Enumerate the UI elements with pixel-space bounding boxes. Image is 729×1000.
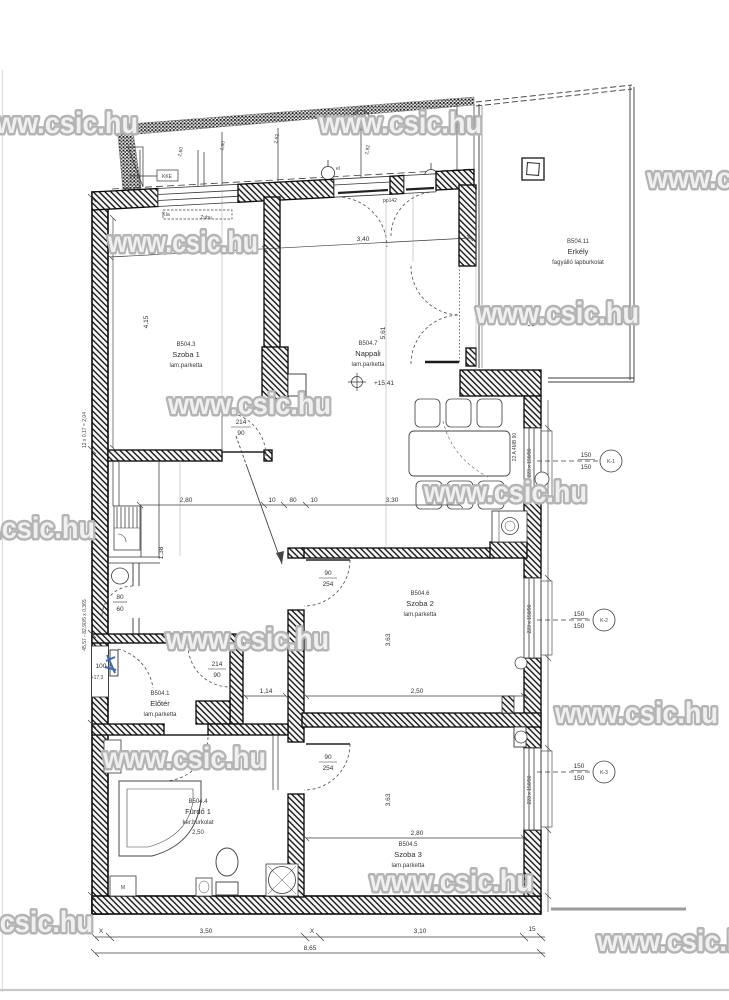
svg-text:2,80: 2,80 <box>411 830 424 837</box>
label Szoba2 <box>403 591 437 618</box>
top wall segment C <box>390 176 404 195</box>
chair 6 <box>478 481 504 509</box>
chair 3 <box>477 399 502 427</box>
inner dim line Szoba1 left <box>110 215 116 451</box>
svg-text:60: 60 <box>116 606 124 613</box>
window right Nappali <box>524 428 552 500</box>
white niche box below S2|S3 wall <box>514 727 526 747</box>
svg-text:90: 90 <box>324 754 332 761</box>
column square on balcony <box>522 158 544 180</box>
wall WC bottom H1 <box>92 634 188 643</box>
svg-text:pp142: pp142 <box>383 198 397 204</box>
extension thin verticals <box>180 190 476 556</box>
svg-text:el: el <box>336 166 340 172</box>
svg-text:+17,3: +17,3 <box>91 675 104 681</box>
top door opening 2 <box>404 174 436 194</box>
svg-text:lam.parketta: lam.parketta <box>143 712 177 718</box>
svg-text:22 A 4MB 90: 22 A 4MB 90 <box>512 433 518 462</box>
top wall segment B <box>238 179 334 202</box>
door Fürdő arc <box>164 735 208 781</box>
svg-text:90: 90 <box>237 430 245 437</box>
label Szoba3 <box>391 842 425 869</box>
wall right seg2 <box>524 500 541 578</box>
toilet Fürdő <box>216 848 238 895</box>
chair 4 <box>416 481 442 509</box>
washing machine Fürdő <box>104 740 121 773</box>
svg-text:Szoba 3: Szoba 3 <box>394 850 422 859</box>
svg-text:www.csic.hu: www.csic.hu <box>0 107 138 140</box>
chair 1 <box>415 399 440 427</box>
wall right seg4 <box>524 830 541 896</box>
svg-text:223 x 150/90: 223 x 150/90 <box>527 775 533 804</box>
entrance door gap + blue mark <box>91 646 153 697</box>
svg-text:150: 150 <box>574 611 585 618</box>
svg-text:B504.4: B504.4 <box>188 799 208 805</box>
vent circle on top wall 2 <box>425 163 438 183</box>
label Elotér <box>143 691 177 718</box>
svg-text:B504.3: B504.3 <box>176 342 196 348</box>
svg-text:Erkély: Erkély <box>568 247 589 256</box>
triangle brace top-left <box>128 147 143 187</box>
wall between Nappali and balcony (vertical) <box>459 185 476 266</box>
svg-text:www.csic.hu: www.csic.hu <box>318 107 482 140</box>
scan edge line <box>2 70 4 992</box>
svg-text:Fürdő 1: Fürdő 1 <box>185 807 211 816</box>
svg-text:www.csic.hu: www.csic.hu <box>0 906 93 939</box>
svg-text:www.csic.hu: www.csic.hu <box>165 623 329 656</box>
H1 stub right <box>228 634 236 643</box>
top wall corner piece D <box>436 170 474 191</box>
svg-text:www.csic.hu: www.csic.hu <box>167 388 331 421</box>
floor drain square <box>266 864 298 896</box>
mid wall Nappali|Szoba2 <box>302 548 492 558</box>
svg-text:150: 150 <box>581 452 592 459</box>
svg-text:fagyálló lapburkolat: fagyálló lapburkolat <box>552 260 604 266</box>
wall left <box>92 192 108 914</box>
window right Szoba3 <box>524 748 552 830</box>
shaft top thin wall <box>107 506 160 563</box>
svg-text:www.csic.hu: www.csic.hu <box>107 226 258 259</box>
door Elotér arc <box>188 643 230 687</box>
svg-text:100: 100 <box>96 663 107 670</box>
svg-text:B504.7: B504.7 <box>358 341 378 347</box>
section arrow diagonal <box>236 436 284 564</box>
svg-text:2,60: 2,60 <box>177 146 185 157</box>
wall Szoba2|Szoba3 <box>302 713 541 727</box>
svg-text:10: 10 <box>268 497 276 504</box>
post lines top-left <box>198 150 204 190</box>
small white box next to duct <box>288 374 306 396</box>
label Erkély <box>552 239 604 266</box>
bottom page separator <box>0 989 729 991</box>
svg-text:4,15: 4,15 <box>143 315 150 328</box>
svg-text:Nappali: Nappali <box>355 349 381 358</box>
svg-text:2,50: 2,50 <box>411 688 424 695</box>
window right Szoba2 <box>524 578 552 658</box>
svg-text:12 x 0,17 = 2,04: 12 x 0,17 = 2,04 <box>82 412 88 448</box>
door Szoba1 arc <box>222 412 266 456</box>
svg-text:15: 15 <box>528 926 536 933</box>
mid wall under kitchen <box>490 542 527 558</box>
svg-text:90: 90 <box>324 570 332 577</box>
wall Elotér bottom H2 left <box>92 724 164 735</box>
dashed line above top wall <box>112 169 474 189</box>
door label 214/90 Szoba1 <box>231 419 251 437</box>
extension line door top <box>412 192 414 262</box>
niche lines below Szoba1 wall <box>113 461 159 557</box>
svg-text:Szoba 2: Szoba 2 <box>406 599 434 608</box>
WC sink <box>112 568 129 584</box>
svg-text:3,10: 3,10 <box>414 928 427 935</box>
bathtub corner <box>119 781 201 856</box>
svg-text:3,30: 3,30 <box>386 497 399 504</box>
svg-text:lam.parketta: lam.parketta <box>403 612 437 618</box>
svg-text:K-1: K-1 <box>607 459 615 465</box>
hatched chunk Elotér bottom right <box>196 701 230 724</box>
svg-text:90: 90 <box>213 672 221 679</box>
kitchen counter <box>492 511 527 542</box>
svg-text:KKE: KKE <box>162 174 173 180</box>
Szoba1 bottom wall left part <box>108 450 222 461</box>
window leader Szoba2 <box>537 609 615 631</box>
WC door arc <box>102 586 133 617</box>
svg-text:254: 254 <box>323 765 334 772</box>
balcony door post <box>466 348 476 366</box>
wall corridor|rooms V2 seg1 <box>288 548 304 558</box>
level mark Nappali <box>348 373 366 391</box>
svg-text:www.csic.hu: www.csic.hu <box>646 162 729 195</box>
wall right seg3 <box>524 658 541 748</box>
svg-text:+15,41: +15,41 <box>374 380 394 387</box>
dark sill marks top wall <box>338 190 388 193</box>
svg-text:www.csic.hu: www.csic.hu <box>475 297 639 330</box>
svg-text:10: 10 <box>310 497 318 504</box>
svg-text:www.csic.hu: www.csic.hu <box>0 512 95 545</box>
svg-text:254: 254 <box>323 581 334 588</box>
svg-text:www.csic.hu: www.csic.hu <box>369 865 533 898</box>
bottom dim line 2 <box>91 949 545 957</box>
door label 214/90 Elotér <box>208 661 226 679</box>
Szoba2 dim line <box>303 693 527 699</box>
svg-text:80: 80 <box>289 497 297 504</box>
svg-text:X: X <box>310 928 315 935</box>
level mark Erkély <box>523 310 539 326</box>
shaft box with stripes <box>114 506 140 550</box>
svg-text:lam.parketta: lam.parketta <box>169 363 203 369</box>
label Fürdő <box>182 799 213 836</box>
door arcs at top wall into Nappali <box>337 192 435 247</box>
svg-text:2,62: 2,62 <box>273 133 281 144</box>
svg-text:223 x 150/90: 223 x 150/90 <box>527 448 533 477</box>
balcony double door <box>411 266 460 364</box>
svg-text:8,65: 8,65 <box>304 945 317 952</box>
svg-text:K-2: K-2 <box>600 618 608 624</box>
Szoba3 dim line <box>303 835 527 841</box>
svg-text:150: 150 <box>581 464 592 471</box>
door Szoba3 arc <box>304 744 350 790</box>
svg-text:Előtér: Előtér <box>150 699 170 708</box>
duct block at wall end <box>262 347 288 399</box>
pipe circle Szoba2 sill <box>515 657 527 669</box>
svg-text:B504.5: B504.5 <box>398 842 418 848</box>
bottom dim line 1 <box>91 933 545 941</box>
svg-text:lam.parketta: lam.parketta <box>351 362 385 368</box>
gray line right of bottom wall <box>551 908 686 911</box>
left wall outer ticks <box>88 194 96 900</box>
door label 90/254 Szoba3 <box>319 754 337 772</box>
svg-text:3,63: 3,63 <box>385 793 392 806</box>
top room dim line <box>107 235 473 260</box>
connector lines from band to wall <box>140 103 474 190</box>
wall H2 right <box>208 724 288 735</box>
svg-text:B504.1: B504.1 <box>150 691 170 697</box>
KKE label box <box>130 170 178 181</box>
svg-text:ker.burkolat: ker.burkolat <box>182 820 213 826</box>
svg-text:www.csic.hu: www.csic.hu <box>102 742 266 775</box>
wall V2 seg2 <box>288 610 304 742</box>
svg-text:80: 80 <box>116 594 124 601</box>
door Szoba2 arc <box>304 560 350 606</box>
wall band between balcony and kitchen <box>460 370 541 396</box>
radiator under window W1 <box>163 210 232 219</box>
door label 90/254 Szoba2 <box>319 570 337 588</box>
corridor width dim <box>242 693 289 699</box>
right vertical dim line <box>545 400 551 912</box>
pipe circle Szoba3 sill <box>515 731 527 743</box>
window leader Szoba3 <box>537 761 615 783</box>
shower screen line <box>273 735 278 790</box>
svg-text:2,92: 2,92 <box>364 144 372 155</box>
svg-text:www.csic.hu: www.csic.hu <box>423 476 587 509</box>
svg-text:150: 150 <box>574 775 585 782</box>
wall right top corner piece <box>524 396 541 428</box>
corridor dim line <box>137 502 463 508</box>
dining table <box>409 431 510 476</box>
cabinet M bottom left <box>110 876 136 896</box>
balcony door threshold dark <box>425 361 459 363</box>
svg-text:Zubu: Zubu <box>200 215 212 221</box>
vent circle on top wall 1 <box>322 160 335 180</box>
svg-text:214: 214 <box>212 661 223 668</box>
svg-text:B504.11: B504.11 <box>567 239 590 245</box>
window leader Nappali <box>537 450 622 472</box>
svg-text:3,50: 3,50 <box>200 928 213 935</box>
svg-text:45,57 - 82,90/5 x 0,365: 45,57 - 82,90/5 x 0,365 <box>82 599 88 651</box>
svg-text:2,50: 2,50 <box>192 830 204 836</box>
interior wall Szoba1|Nappali <box>264 197 280 384</box>
chair 5 <box>447 481 473 509</box>
svg-text:M: M <box>121 885 125 891</box>
svg-text:1,38: 1,38 <box>158 546 165 559</box>
svg-text:3,63: 3,63 <box>385 633 392 646</box>
balcony parapet dashed top <box>476 85 634 382</box>
Szoba1 bottom wall right stub <box>264 450 272 461</box>
svg-text:150: 150 <box>574 763 585 770</box>
wall bottom <box>92 896 541 914</box>
svg-text:223 x 150/90: 223 x 150/90 <box>527 604 533 633</box>
top door opening sill <box>334 176 390 197</box>
svg-text:www.csic.hu: www.csic.hu <box>554 697 718 730</box>
svg-text:1,14: 1,14 <box>260 688 273 695</box>
swing arc across table <box>443 421 488 477</box>
wall Elotér right V3 <box>230 643 243 724</box>
svg-text:2,80: 2,80 <box>180 497 193 504</box>
svg-text:K-3: K-3 <box>600 770 608 776</box>
wall V2 seg3 <box>288 794 304 897</box>
circle mark on band <box>353 111 370 128</box>
small sink Fürdő <box>196 878 212 896</box>
demolition stipple band top <box>116 97 474 191</box>
WC label <box>113 594 127 613</box>
svg-text:Szoba 1: Szoba 1 <box>172 350 200 359</box>
pipe circle outside right wall <box>535 472 549 486</box>
small notch above S2|S3 wall <box>502 696 514 713</box>
window W1 top (Szoba 1) <box>158 184 238 206</box>
svg-text:150: 150 <box>574 623 585 630</box>
WC right wall <box>133 563 139 634</box>
svg-text:B504.6: B504.6 <box>410 591 430 597</box>
svg-text:KIa: KIa <box>162 212 170 218</box>
svg-text:3,40: 3,40 <box>357 236 370 243</box>
label Szoba1 <box>169 342 203 369</box>
chair 2 <box>446 399 471 427</box>
top wall segment A <box>92 189 158 211</box>
svg-text:1,60: 1,60 <box>219 140 227 151</box>
svg-text:X: X <box>99 928 104 935</box>
svg-text:www.csic.hu: www.csic.hu <box>596 925 729 958</box>
label Nappali <box>351 341 385 368</box>
